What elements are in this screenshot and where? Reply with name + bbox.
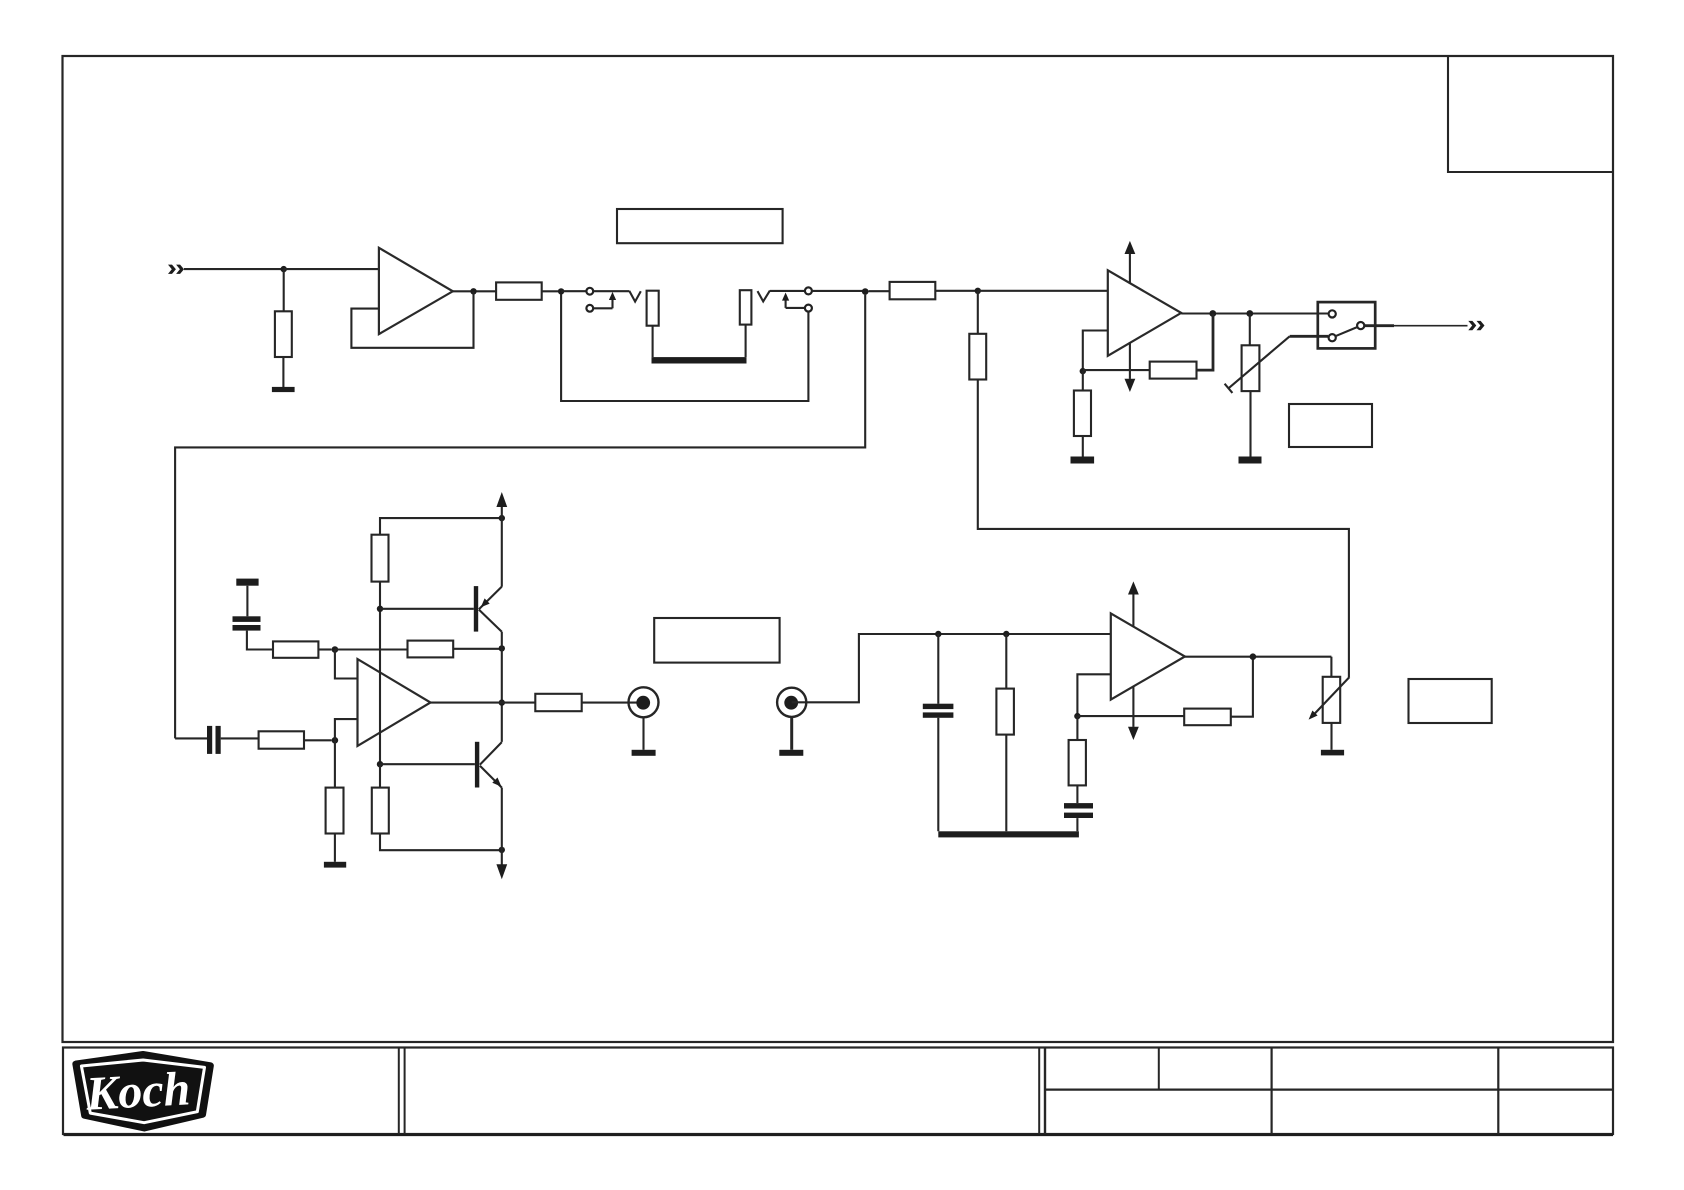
ground (C2 top) (236, 579, 258, 586)
resistor R2 (U1 output) (496, 282, 542, 299)
arrow return normalling contact (782, 293, 789, 308)
wire U2 output (1181, 312, 1328, 314)
wire arrow to lower return contact (786, 307, 805, 309)
+V supply arrow (U2) (1125, 241, 1136, 284)
node G junction (935, 631, 941, 637)
label box (master volume) (1289, 404, 1372, 447)
wire J6 shell to ground (790, 717, 793, 750)
switch SW1 box (1318, 302, 1375, 348)
wire C2 to R9 (247, 631, 273, 650)
svg-text:Koch: Koch (84, 1062, 192, 1120)
wire node G to C3 (937, 634, 939, 704)
title block strip (63, 1048, 1613, 1135)
ground (R8) (324, 862, 346, 868)
node E (Q1 base) (377, 606, 383, 612)
resistor R5 (feedback) (1150, 362, 1197, 379)
wire R15 up to output (1231, 657, 1253, 717)
wire output to P2 (1330, 657, 1332, 677)
node U1 output (470, 288, 476, 294)
wire feedback node to R15 (1077, 715, 1184, 717)
return jack J3 body (740, 290, 752, 324)
ground (J6) (779, 750, 803, 756)
wire R5 to feedback node (1083, 369, 1150, 371)
node U2 output junction (1209, 310, 1216, 317)
-V supply arrow (booster) (496, 788, 507, 880)
wire bypass loop (send node to return contact) (561, 295, 808, 402)
switch SW1 pole (1357, 322, 1364, 329)
wire feedback node to R16 (1076, 716, 1078, 740)
resistor R13 (output build-out) (535, 694, 581, 711)
switch SW1 lever (1335, 327, 1357, 336)
wire pot wiper to switch (1290, 335, 1329, 338)
node +V rail junction (499, 515, 505, 521)
output connector J4 (>> chevrons) (1468, 321, 1484, 330)
wire return contact to node (812, 290, 865, 292)
transistor Q2 (NPN) (475, 742, 502, 788)
resistor R4 (969, 334, 986, 380)
node volume pot junction (1246, 310, 1253, 317)
label box (effects loop) (617, 209, 783, 243)
ground (U2 feedback) (1071, 457, 1095, 464)
drawing border frame (decorative) (63, 56, 1614, 1042)
arrow send normalling contact (609, 292, 616, 308)
wire node B to op-amp U2 (978, 290, 1108, 292)
wire bias string (crosses U3) (379, 609, 381, 764)
resistor R14 (to ground) (996, 689, 1014, 735)
wire ground to C2 (246, 586, 248, 617)
wire input to node (184, 268, 284, 270)
wire node E to Q1 base (380, 608, 474, 610)
wire node to R1 (283, 269, 285, 311)
node H junction (1003, 631, 1009, 637)
wire feedback node to R6 (1082, 371, 1084, 390)
node U4 feedback junction (1074, 713, 1080, 719)
label box (level pot) (1409, 679, 1492, 723)
wire U3 output (431, 702, 536, 704)
RCA jack J6 (line in) (777, 688, 806, 717)
wire return node down-left to booster input (175, 295, 865, 739)
wire R13 to RCA J5 (582, 702, 641, 704)
resistor R3 (series) (890, 282, 936, 299)
return jack J3 switch contact (lower) (805, 305, 812, 312)
wire node C to U3 non-inverting input (335, 650, 358, 679)
wire J5 shell to ground (642, 717, 644, 750)
wire R12 to -V rail (380, 834, 502, 851)
wire node F to Q2 base (380, 763, 475, 765)
RCA jack J5 (line out) (629, 687, 659, 717)
op-amp U4 (1111, 613, 1185, 699)
wire R9 to node C (318, 648, 331, 650)
wire to output connector (1394, 325, 1468, 327)
node -V rail junction (499, 847, 505, 853)
wire R3 to node B (935, 290, 978, 292)
resistor R16 (1069, 740, 1086, 785)
wire node D down to R8 (334, 740, 336, 787)
-V supply arrow (U2) (1125, 342, 1136, 392)
node F (Q2 base) (377, 761, 383, 767)
wire U1 feedback loop (351, 291, 473, 348)
wire tip to return contact (770, 290, 805, 292)
wire R10 to output rail (453, 648, 502, 650)
wire node to R3 (869, 290, 890, 292)
wire J3 sleeve down (745, 325, 747, 358)
wire lower contact to arrow (593, 307, 612, 309)
wire U4 output (1185, 656, 1332, 658)
node rail/R10 junction (499, 645, 505, 651)
wire C3 to ground bus (937, 718, 939, 832)
capacitor C1 (input coupling) (207, 726, 221, 754)
resistor R10 (feedback) (408, 641, 454, 658)
node U3 output junction (499, 699, 505, 705)
wire R11 top to +V rail (380, 518, 502, 535)
-V supply arrow (U4) (1128, 686, 1139, 740)
wire J6 to U4 input (792, 634, 1111, 702)
wire R6 to ground (1082, 436, 1084, 457)
wire R11 to node E (379, 582, 381, 609)
wire C4 to ground bus (1076, 818, 1078, 831)
node B junction (975, 288, 981, 294)
send jack J2 switch contact (upper) (586, 288, 593, 295)
wire node D to U3 inverting input (335, 719, 358, 740)
ground (volume pot) (1239, 457, 1262, 464)
resistor R9 (273, 641, 318, 657)
op-amp U1 (379, 248, 453, 334)
switch SW1 contact lower (1329, 334, 1336, 341)
+V supply arrow (booster) (496, 492, 507, 587)
node send (effects loop) (558, 288, 564, 294)
wire pot bottom to ground (1249, 391, 1251, 456)
ground (J5) (632, 750, 656, 756)
resistor R12 (lower bias) (372, 788, 389, 834)
capacitor C3 (923, 704, 954, 718)
capacitor C2 (233, 616, 261, 630)
node return junction (862, 288, 869, 295)
ground (input divider) (272, 387, 295, 392)
wire R14 to ground bus (1005, 735, 1007, 832)
wire R8 to ground (334, 834, 336, 862)
wire output down to R5 feedback (1197, 314, 1214, 371)
resistor R11 (upper bias) (372, 535, 389, 582)
transistor Q1 (PNP) (474, 586, 502, 632)
label box (line out) (654, 618, 779, 663)
switch SW1 contact upper (1329, 310, 1336, 317)
wire node C to R10 (335, 648, 408, 650)
node U4 output junction (1250, 653, 1257, 660)
input connector J1 (>> chevrons) (168, 265, 184, 274)
ground bus (jack sleeves) (652, 357, 747, 363)
wire long run into C1 (175, 737, 207, 739)
wire node to send switch contact (561, 290, 586, 292)
capacitor C4 (1064, 803, 1093, 818)
wire P2 bottom to ground (1330, 723, 1332, 750)
wire node B down to R4 (977, 291, 979, 334)
ground bus bar (938, 831, 1079, 837)
ground (P2) (1321, 750, 1344, 756)
wire U1 output (453, 290, 496, 292)
wire node to op-amp U1 (284, 268, 379, 270)
Koch logo (76, 1054, 211, 1128)
wire R7 to node D (304, 739, 332, 741)
wire R2 to send node (542, 290, 561, 292)
node C junction (332, 646, 339, 653)
wire node F to R12 (379, 764, 381, 787)
potentiometer P1 (volume) (1225, 336, 1290, 393)
wire rail Q1 collector to Q2 collector (501, 632, 503, 742)
resistor R6 (to ground) (1074, 391, 1091, 437)
node D junction (332, 737, 339, 744)
wire J2 sleeve down (652, 326, 654, 357)
wire C1 to R7 (221, 737, 259, 739)
wire U4 inverting input (1077, 674, 1110, 716)
node input junction (281, 266, 287, 272)
return jack J3 switch contact (upper) (805, 287, 812, 294)
wire node to volume pot (1249, 314, 1251, 346)
tip spring V (send jack) (629, 291, 641, 302)
op-amp U2 (1108, 270, 1181, 356)
wire R16 to C4 (1076, 785, 1078, 803)
revision box (top-right corner) (1448, 57, 1613, 173)
wire U2 inverting input (1083, 331, 1108, 372)
node U2 feedback junction (1080, 368, 1086, 374)
op-amp U3 (358, 659, 431, 746)
resistor R7 (series input) (259, 731, 304, 748)
potentiometer P2 (level) (1309, 677, 1350, 723)
resistor R8 (to ground) (326, 788, 344, 834)
resistor R1 (275, 311, 292, 357)
+V supply arrow (U4) (1128, 581, 1139, 626)
wire send contact to tip (593, 290, 629, 292)
wire R4 to master pot wiper (long run) (978, 380, 1349, 678)
wire node H to R14 (1005, 634, 1007, 689)
send jack J2 body (647, 291, 659, 326)
wire R1 to ground (282, 357, 284, 387)
tip spring V (return jack) (758, 291, 770, 302)
resistor R15 (feedback) (1184, 709, 1231, 726)
wire switch to output (1364, 324, 1394, 327)
send jack J2 switch contact (lower) (586, 305, 593, 312)
